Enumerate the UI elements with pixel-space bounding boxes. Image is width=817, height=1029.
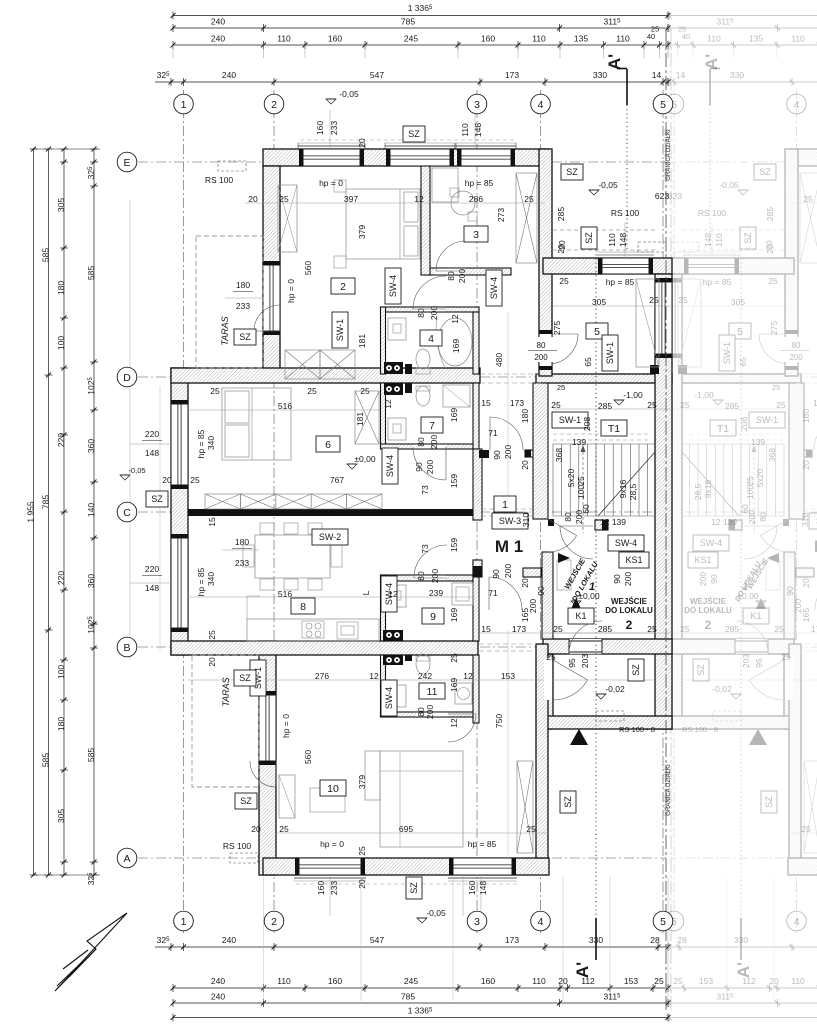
svg-text:25: 25 (647, 400, 657, 410)
svg-text:310: 310 (521, 513, 531, 527)
svg-text:397: 397 (344, 194, 358, 204)
svg-text:2: 2 (271, 916, 277, 928)
svg-text:-1,00: -1,00 (623, 390, 643, 400)
svg-text:200: 200 (430, 569, 440, 583)
svg-text:585: 585 (86, 748, 96, 762)
svg-text:25: 25 (360, 386, 370, 396)
svg-text:SZ: SZ (239, 332, 251, 342)
svg-text:1: 1 (502, 499, 508, 511)
svg-text:25: 25 (526, 824, 536, 834)
svg-text:169: 169 (449, 678, 459, 692)
svg-text:200: 200 (457, 269, 467, 283)
svg-text:160: 160 (467, 881, 477, 895)
svg-text:80: 80 (416, 308, 426, 318)
svg-text:148: 148 (703, 233, 713, 247)
svg-text:-1,00: -1,00 (694, 390, 714, 400)
svg-text:110: 110 (616, 34, 630, 44)
svg-text:-0,02: -0,02 (605, 684, 625, 694)
svg-text:SW-4: SW-4 (615, 538, 637, 548)
svg-text:RS 100: RS 100 (698, 208, 727, 218)
svg-text:K1: K1 (750, 611, 761, 621)
svg-text:RS 100: RS 100 (223, 841, 252, 851)
svg-text:200: 200 (623, 572, 633, 586)
svg-text:L: L (361, 590, 371, 595)
svg-text:K1: K1 (575, 611, 586, 621)
svg-text:2: 2 (271, 99, 277, 111)
svg-text:4: 4 (538, 916, 544, 928)
svg-text:25: 25 (781, 652, 791, 662)
svg-text:25: 25 (768, 276, 778, 286)
svg-text:240: 240 (211, 17, 225, 27)
svg-text:547: 547 (370, 935, 384, 945)
svg-text:SZ: SZ (631, 664, 641, 676)
svg-text:585: 585 (41, 248, 51, 262)
svg-text:28: 28 (650, 935, 660, 945)
svg-text:SW-4: SW-4 (489, 277, 499, 299)
svg-text:140: 140 (86, 503, 96, 517)
svg-text:160: 160 (481, 976, 495, 986)
svg-text:71: 71 (488, 588, 498, 598)
svg-text:B: B (123, 642, 130, 654)
svg-text:330: 330 (730, 70, 744, 80)
svg-text:25: 25 (546, 652, 556, 662)
svg-text:220: 220 (56, 571, 66, 585)
svg-text:173: 173 (505, 935, 519, 945)
svg-text:hp = 85: hp = 85 (465, 178, 494, 188)
svg-text:173: 173 (813, 398, 817, 408)
svg-text:585: 585 (86, 266, 96, 280)
svg-text:200: 200 (793, 599, 803, 613)
svg-text:110: 110 (714, 233, 724, 247)
svg-text:SZ: SZ (759, 167, 771, 177)
svg-text:15: 15 (207, 517, 217, 527)
svg-text:SZ: SZ (239, 673, 251, 683)
svg-text:285: 285 (725, 401, 739, 411)
svg-text:200: 200 (534, 353, 548, 362)
svg-text:95: 95 (567, 658, 577, 668)
svg-text:SW-1: SW-1 (722, 342, 732, 364)
svg-text:275: 275 (769, 321, 779, 335)
svg-text:25: 25 (673, 976, 683, 986)
svg-text:379: 379 (357, 775, 367, 789)
svg-text:20: 20 (769, 976, 779, 986)
svg-text:hp = 0: hp = 0 (281, 714, 291, 738)
svg-text:80: 80 (758, 512, 768, 522)
svg-text:12: 12 (463, 671, 473, 681)
svg-text:25: 25 (279, 824, 289, 834)
svg-text:5x20: 5x20 (566, 469, 576, 488)
svg-text:623: 623 (668, 191, 682, 201)
svg-text:160: 160 (328, 976, 342, 986)
svg-text:3: 3 (474, 99, 480, 111)
svg-text:6: 6 (325, 439, 331, 451)
svg-text:110: 110 (791, 34, 805, 44)
svg-text:25: 25 (680, 624, 690, 634)
svg-text:hp = 0: hp = 0 (320, 839, 344, 849)
svg-text:25: 25 (449, 653, 459, 663)
svg-text:516: 516 (278, 589, 292, 599)
svg-text:110: 110 (532, 976, 546, 986)
svg-text:560: 560 (303, 750, 313, 764)
svg-text:SZ: SZ (151, 494, 163, 504)
svg-text:5x20: 5x20 (755, 469, 765, 488)
svg-text:20: 20 (207, 657, 217, 667)
svg-text:181: 181 (355, 412, 365, 426)
svg-text:SZ: SZ (563, 796, 573, 808)
svg-text:148: 148 (145, 583, 159, 593)
svg-text:220: 220 (145, 564, 159, 574)
svg-text:585: 585 (41, 753, 51, 767)
svg-text:285: 285 (598, 624, 612, 634)
svg-text:80: 80 (416, 571, 426, 581)
svg-text:160: 160 (316, 881, 326, 895)
svg-text:135: 135 (749, 34, 763, 44)
svg-text:SW-1: SW-1 (335, 319, 345, 341)
svg-text:20: 20 (357, 879, 367, 889)
svg-text:208: 208 (582, 417, 592, 431)
svg-text:A: A (123, 853, 130, 865)
svg-text:275: 275 (552, 321, 562, 335)
svg-text:A': A' (573, 962, 592, 978)
svg-text:28,5: 28,5 (628, 483, 638, 500)
svg-text:SZ: SZ (764, 796, 774, 808)
svg-text:20: 20 (520, 460, 530, 470)
svg-text:SZ: SZ (743, 232, 753, 244)
svg-text:25: 25 (279, 194, 289, 204)
svg-text:12: 12 (449, 718, 459, 728)
svg-text:139: 139 (751, 437, 765, 447)
svg-text:DO LOKALU: DO LOKALU (684, 606, 732, 615)
svg-text:SZ: SZ (566, 167, 578, 177)
svg-text:1: 1 (589, 581, 595, 593)
svg-text:SW-1: SW-1 (605, 342, 615, 364)
svg-text:203: 203 (580, 654, 590, 668)
svg-text:KS1: KS1 (694, 555, 711, 565)
svg-text:379: 379 (357, 225, 367, 239)
svg-text:65: 65 (738, 357, 748, 367)
svg-text:180: 180 (520, 409, 530, 423)
svg-text:203: 203 (741, 654, 751, 668)
svg-text:25: 25 (772, 383, 780, 392)
svg-text:RS 100: RS 100 (205, 175, 234, 185)
svg-text:153: 153 (624, 976, 638, 986)
svg-text:SW-4: SW-4 (388, 275, 398, 297)
svg-text:hp = 85: hp = 85 (196, 567, 206, 596)
svg-text:153: 153 (501, 671, 515, 681)
svg-text:12: 12 (414, 194, 424, 204)
svg-text:200: 200 (429, 435, 439, 449)
svg-text:8: 8 (300, 601, 306, 613)
svg-text:TARAS: TARAS (221, 677, 231, 706)
svg-text:4: 4 (538, 99, 544, 111)
svg-text:SZ: SZ (409, 882, 419, 894)
svg-text:25: 25 (678, 295, 688, 305)
svg-text:90: 90 (785, 586, 795, 596)
svg-text:25: 25 (210, 386, 220, 396)
svg-text:90: 90 (491, 569, 501, 579)
svg-text:159: 159 (449, 538, 459, 552)
svg-text:750: 750 (494, 714, 504, 728)
svg-text:20: 20 (558, 976, 568, 986)
svg-text:5: 5 (660, 99, 666, 111)
svg-text:200: 200 (503, 445, 513, 459)
svg-text:360: 360 (86, 574, 96, 588)
svg-text:-0,05: -0,05 (719, 180, 739, 190)
svg-text:20: 20 (162, 475, 172, 485)
svg-text:95: 95 (754, 658, 764, 668)
svg-text:12: 12 (369, 671, 379, 681)
svg-text:25: 25 (680, 400, 690, 410)
svg-text:25: 25 (576, 476, 586, 486)
svg-text:WEJŚCIE: WEJŚCIE (690, 597, 727, 606)
svg-text:20: 20 (520, 578, 530, 588)
svg-text:173: 173 (512, 624, 526, 634)
svg-text:hp = 85: hp = 85 (606, 277, 635, 287)
svg-text:233: 233 (236, 301, 250, 311)
svg-text:T1: T1 (717, 423, 729, 435)
svg-text:9x16: 9x16 (703, 480, 713, 499)
svg-text:160: 160 (315, 121, 325, 135)
svg-text:40: 40 (682, 32, 690, 41)
svg-text:25: 25 (524, 194, 534, 204)
svg-text:TARAS: TARAS (220, 316, 230, 345)
svg-text:SW-4: SW-4 (700, 538, 722, 548)
svg-text:560: 560 (303, 261, 313, 275)
svg-text:28,5: 28,5 (693, 483, 703, 500)
svg-text:90: 90 (536, 586, 546, 596)
svg-text:5: 5 (660, 916, 666, 928)
svg-text:330: 330 (593, 70, 607, 80)
svg-text:110: 110 (277, 976, 291, 986)
svg-text:135: 135 (574, 34, 588, 44)
svg-text:80: 80 (792, 341, 801, 350)
svg-text:785: 785 (41, 495, 51, 509)
svg-text:15: 15 (481, 398, 491, 408)
svg-text:110: 110 (607, 233, 617, 247)
svg-text:767: 767 (330, 475, 344, 485)
svg-text:785: 785 (401, 17, 415, 27)
svg-text:A': A' (734, 962, 753, 978)
svg-text:4: 4 (794, 99, 800, 111)
svg-text:-0,05: -0,05 (128, 466, 145, 475)
svg-text:hp = 85: hp = 85 (196, 429, 206, 458)
svg-text:220: 220 (56, 433, 66, 447)
svg-text:180: 180 (56, 281, 66, 295)
svg-text:285: 285 (598, 401, 612, 411)
svg-text:A': A' (702, 54, 721, 70)
svg-text:480: 480 (494, 353, 504, 367)
svg-text:25: 25 (649, 295, 659, 305)
svg-text:SW-1: SW-1 (756, 415, 778, 425)
svg-text:71: 71 (488, 428, 498, 438)
svg-text:20: 20 (248, 194, 258, 204)
svg-text:233: 233 (235, 558, 249, 568)
svg-text:240: 240 (211, 992, 225, 1002)
svg-text:173: 173 (510, 398, 524, 408)
svg-text:173: 173 (505, 70, 519, 80)
svg-text:1: 1 (742, 581, 748, 593)
svg-text:180: 180 (236, 280, 250, 290)
svg-text:GRANICA DZIAŁKI: GRANICA DZIAŁKI (666, 764, 672, 816)
svg-text:25: 25 (559, 276, 569, 286)
svg-text:305: 305 (56, 809, 66, 823)
svg-text:9x16: 9x16 (618, 480, 628, 499)
svg-text:T1: T1 (608, 423, 620, 435)
svg-text:4: 4 (794, 916, 800, 928)
svg-text:180: 180 (801, 409, 811, 423)
svg-text:240: 240 (211, 976, 225, 986)
svg-text:25: 25 (307, 386, 317, 396)
svg-text:110: 110 (460, 123, 470, 137)
svg-text:360: 360 (86, 439, 96, 453)
svg-text:148: 148 (145, 448, 159, 458)
svg-text:368: 368 (767, 448, 777, 462)
svg-text:25: 25 (190, 475, 200, 485)
svg-text:139: 139 (572, 437, 586, 447)
svg-text:28: 28 (677, 935, 687, 945)
svg-text:25: 25 (776, 400, 786, 410)
svg-text:233: 233 (329, 881, 339, 895)
svg-text:159: 159 (449, 474, 459, 488)
svg-text:25: 25 (745, 476, 755, 486)
svg-text:239: 239 (429, 588, 443, 598)
svg-text:200: 200 (425, 705, 435, 719)
svg-text:-0,05: -0,05 (598, 180, 618, 190)
svg-text:SZ: SZ (584, 232, 594, 244)
svg-text:73: 73 (420, 544, 430, 554)
svg-text:20: 20 (801, 578, 811, 588)
svg-text:242: 242 (418, 671, 432, 681)
svg-text:785: 785 (401, 992, 415, 1002)
svg-text:80: 80 (537, 341, 546, 350)
svg-text:245: 245 (404, 976, 418, 986)
svg-text:1: 1 (181, 99, 187, 111)
svg-text:90: 90 (492, 450, 502, 460)
svg-text:169: 169 (449, 408, 459, 422)
svg-text:SZ: SZ (240, 796, 252, 806)
svg-text:80: 80 (416, 437, 426, 447)
svg-text:25: 25 (774, 624, 784, 634)
svg-text:SZ: SZ (696, 664, 706, 676)
svg-text:310: 310 (800, 513, 810, 527)
svg-text:110: 110 (791, 976, 805, 986)
svg-text:273: 273 (496, 208, 506, 222)
svg-text:SW-4: SW-4 (384, 687, 394, 709)
svg-text:285: 285 (556, 207, 566, 221)
svg-text:25: 25 (654, 976, 664, 986)
svg-text:M 1: M 1 (495, 537, 523, 556)
svg-text:233: 233 (329, 121, 339, 135)
svg-text:25: 25 (553, 624, 563, 634)
svg-text:KS1: KS1 (625, 555, 642, 565)
svg-text:200: 200 (503, 564, 513, 578)
svg-text:SZ: SZ (408, 129, 420, 139)
svg-text:A': A' (605, 54, 624, 70)
svg-text:80: 80 (563, 512, 573, 522)
svg-text:20: 20 (801, 460, 811, 470)
svg-text:340: 340 (206, 436, 216, 450)
svg-text:516: 516 (278, 401, 292, 411)
svg-text:200: 200 (789, 353, 803, 362)
svg-text:90: 90 (612, 574, 622, 584)
svg-text:110: 110 (707, 34, 721, 44)
svg-text:148: 148 (478, 881, 488, 895)
svg-text:110: 110 (277, 34, 291, 44)
svg-text:200: 200 (698, 572, 708, 586)
svg-text:20: 20 (556, 244, 566, 254)
svg-text:100: 100 (56, 665, 66, 679)
svg-text:180: 180 (56, 717, 66, 731)
svg-text:160: 160 (328, 34, 342, 44)
svg-text:5: 5 (737, 326, 743, 338)
svg-text:305: 305 (56, 198, 66, 212)
svg-text:E: E (123, 157, 130, 169)
svg-text:285: 285 (765, 207, 775, 221)
svg-text:4: 4 (428, 333, 434, 345)
svg-text:12: 12 (388, 589, 398, 599)
svg-text:12: 12 (450, 314, 460, 324)
svg-text:5: 5 (594, 326, 600, 338)
svg-text:GRANICA DZIAŁKI: GRANICA DZIAŁKI (666, 129, 672, 181)
svg-text:2: 2 (705, 618, 712, 632)
svg-text:9: 9 (430, 611, 436, 623)
svg-text:695: 695 (399, 824, 413, 834)
svg-text:25: 25 (557, 383, 565, 392)
svg-text:200: 200 (574, 510, 584, 524)
svg-text:14: 14 (652, 70, 662, 80)
svg-text:1 955: 1 955 (26, 501, 36, 523)
svg-text:200: 200 (747, 510, 757, 524)
svg-text:hp = 0: hp = 0 (319, 178, 343, 188)
svg-text:RS 100 - 8: RS 100 - 8 (619, 725, 655, 734)
svg-text:40: 40 (647, 32, 655, 41)
svg-text:hp = 85: hp = 85 (703, 277, 732, 287)
svg-text:100: 100 (56, 336, 66, 350)
svg-text:90: 90 (414, 462, 424, 472)
svg-text:173: 173 (811, 624, 817, 634)
svg-text:330: 330 (589, 935, 603, 945)
svg-text:12 139: 12 139 (711, 517, 737, 527)
svg-text:169: 169 (451, 339, 461, 353)
svg-text:10: 10 (327, 783, 339, 795)
svg-text:220: 220 (145, 429, 159, 439)
svg-text:D: D (123, 372, 131, 384)
svg-text:SW-4: SW-4 (385, 455, 395, 477)
svg-text:368: 368 (554, 448, 564, 462)
svg-text:25: 25 (803, 194, 813, 204)
svg-text:SW-1: SW-1 (559, 415, 581, 425)
svg-text:200: 200 (429, 306, 439, 320)
svg-text:3: 3 (473, 229, 479, 241)
svg-text:C: C (123, 507, 131, 519)
svg-text:90: 90 (709, 574, 719, 584)
svg-text:25: 25 (357, 846, 367, 856)
svg-text:110: 110 (532, 34, 546, 44)
svg-text:2: 2 (340, 281, 346, 293)
svg-text:15: 15 (481, 624, 491, 634)
svg-text:547: 547 (370, 70, 384, 80)
svg-text:208: 208 (739, 417, 749, 431)
svg-text:DO LOKALU: DO LOKALU (605, 606, 653, 615)
svg-text:305: 305 (592, 297, 606, 307)
svg-text:340: 340 (206, 572, 216, 586)
svg-text:305: 305 (731, 297, 745, 307)
svg-text:286: 286 (469, 194, 483, 204)
svg-text:20: 20 (357, 138, 367, 148)
svg-text:240: 240 (222, 935, 236, 945)
svg-text:25: 25 (207, 630, 217, 640)
svg-text:-0,02: -0,02 (712, 684, 732, 694)
